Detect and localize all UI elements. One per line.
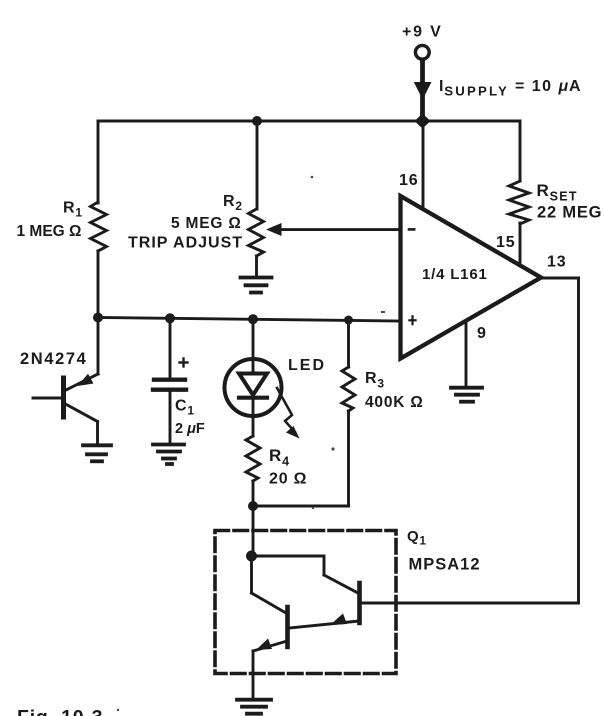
svg-text:C1: C1 xyxy=(175,398,195,418)
svg-text:15: 15 xyxy=(496,234,515,251)
svg-text:1/4 L161: 1/4 L161 xyxy=(422,266,488,283)
svg-text:LED: LED xyxy=(288,357,326,374)
svg-text:Q1: Q1 xyxy=(407,528,427,548)
svg-text:9: 9 xyxy=(477,325,487,342)
svg-text:22 MEG: 22 MEG xyxy=(537,204,602,222)
svg-text:R4: R4 xyxy=(269,446,290,469)
svg-text:Fig. 10-3: Fig. 10-3 xyxy=(17,707,103,716)
svg-text:2 μF: 2 μF xyxy=(175,421,205,437)
svg-text:20 Ω: 20 Ω xyxy=(269,471,307,488)
svg-text:1 MEG Ω: 1 MEG Ω xyxy=(17,223,82,240)
svg-text:+9 V: +9 V xyxy=(402,24,443,41)
svg-text:400K Ω: 400K Ω xyxy=(365,394,424,411)
svg-text:R1: R1 xyxy=(63,200,83,220)
svg-text:5 MEG Ω: 5 MEG Ω xyxy=(171,215,242,232)
svg-text:2N4274: 2N4274 xyxy=(20,350,87,368)
svg-text:R2: R2 xyxy=(223,193,243,213)
svg-text:TRIP ADJUST: TRIP ADJUST xyxy=(128,235,243,252)
svg-text:16: 16 xyxy=(399,172,418,189)
svg-text:13: 13 xyxy=(547,254,566,271)
svg-text:R3: R3 xyxy=(365,370,385,391)
svg-text:MPSA12: MPSA12 xyxy=(409,556,481,574)
svg-text:ISUPPLY = 10 μA: ISUPPLY = 10 μA xyxy=(439,78,581,99)
svg-text:RSET: RSET xyxy=(537,181,578,204)
